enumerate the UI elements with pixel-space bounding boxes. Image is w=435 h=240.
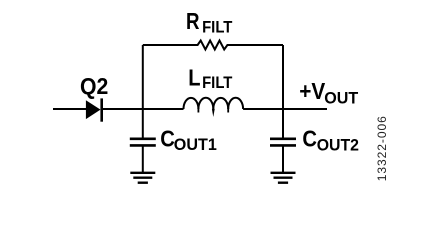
svg-text:C: C: [302, 126, 317, 152]
svg-text:Q2: Q2: [80, 73, 108, 99]
svg-text:FILT: FILT: [202, 74, 232, 92]
svg-text:OUT1: OUT1: [174, 136, 217, 154]
svg-text:+V: +V: [299, 78, 326, 104]
svg-text:OUT: OUT: [324, 90, 358, 108]
svg-text:R: R: [186, 8, 200, 34]
svg-text:13322-006: 13322-006: [375, 115, 389, 181]
svg-text:FILT: FILT: [202, 19, 232, 37]
svg-text:C: C: [160, 126, 175, 152]
svg-text:OUT2: OUT2: [317, 136, 359, 154]
svg-text:L: L: [188, 65, 200, 91]
